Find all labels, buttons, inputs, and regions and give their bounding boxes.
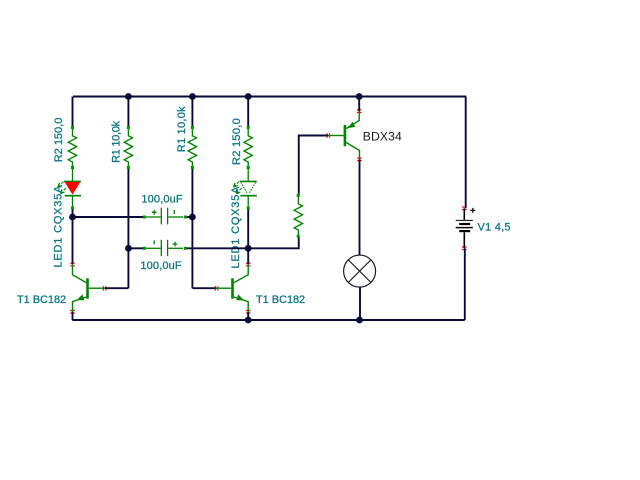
- svg-text:100,0uF: 100,0uF: [141, 194, 183, 206]
- svg-text:R1 10,0k: R1 10,0k: [110, 120, 122, 162]
- svg-text:T1 BC182: T1 BC182: [256, 294, 305, 306]
- svg-text:BDX34: BDX34: [363, 130, 402, 144]
- svg-text:R2 150,0: R2 150,0: [53, 118, 65, 163]
- svg-text:R2 150,0: R2 150,0: [231, 118, 243, 165]
- svg-text:100,0uF: 100,0uF: [140, 260, 182, 272]
- svg-text:V1 4,5: V1 4,5: [478, 222, 511, 234]
- svg-text:LED1 CQX35A: LED1 CQX35A: [230, 186, 242, 269]
- svg-text:R1 10,0k: R1 10,0k: [176, 106, 188, 152]
- svg-text:LED1 CQX35A: LED1 CQX35A: [52, 185, 64, 268]
- svg-text:T1 BC182: T1 BC182: [17, 294, 66, 306]
